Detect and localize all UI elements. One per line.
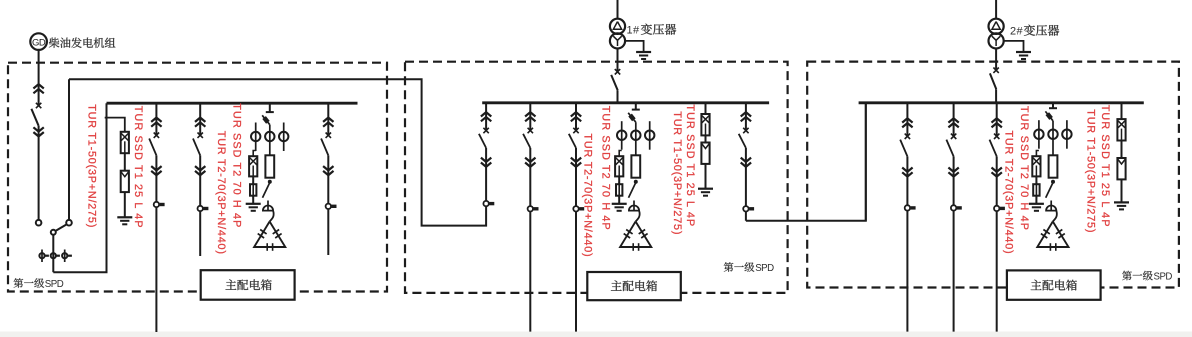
- transformer T2 delta winding: [989, 19, 1004, 34]
- SPD module left surge arrester F1 (varistor): [121, 171, 129, 192]
- breaker blade middle feeder 1: [479, 134, 486, 148]
- stub T-bar left SPD T2 assembly: [266, 111, 274, 113]
- label first level SPD left: [14, 278, 24, 288]
- junction dot middle SPD T2 assembly: [634, 180, 637, 183]
- drawout chevrons left feeder 2 bottom: [195, 171, 205, 175]
- disconnect blade right SPD T2 assembly: [1046, 183, 1053, 198]
- wire right feeder 2 upper: [953, 103, 955, 137]
- pigtail link middle SPD T2 assembly: [636, 211, 640, 222]
- CT sensor middle feeder 1: [483, 201, 488, 206]
- breaker x-contact right feeder 3: [994, 134, 999, 139]
- changeover pivot: [51, 230, 56, 235]
- breaker blade middle feeder 4: [739, 134, 746, 148]
- equipotential triangle right SPD T2 assembly: [1037, 222, 1068, 248]
- SPD phase ports right SPD T2 assembly: [1034, 130, 1043, 139]
- tick marks right SPD T2 assembly triangle bottom: [1049, 243, 1051, 251]
- equipotential triangle middle SPD T2 assembly: [620, 222, 651, 248]
- breaker x-contact generator: [36, 103, 41, 108]
- pigtail link left SPD T2 assembly: [270, 211, 274, 222]
- drawout chevrons left feeder 3 bottom: [323, 171, 333, 175]
- ground middle SPD T2 assembly: [612, 203, 627, 205]
- label first level SPD right: [1122, 271, 1132, 281]
- tick marks middle SPD T2 assembly triangle bottom: [632, 243, 634, 251]
- wire left feeder 3 lower: [327, 155, 329, 255]
- breaker x-contact T1 incoming: [615, 69, 620, 74]
- socket contact right SPD T2 assembly: [1046, 205, 1056, 210]
- drawout chevrons middle feeder 3 top: [571, 112, 581, 116]
- CT sensor middle feeder 2: [528, 206, 533, 211]
- left cabinet dashed enclosure: [8, 63, 387, 292]
- tick marks right SPD T2 assembly triangle left: [1043, 230, 1049, 234]
- drawout chevrons right feeder 1 top: [902, 118, 912, 122]
- linkage contact middle: [51, 253, 56, 258]
- wire right feeder 2 lower: [953, 156, 955, 331]
- svg-text:2#: 2#: [1010, 26, 1024, 38]
- transformer T1 delta winding: [610, 19, 625, 34]
- wire left feeder 1 upper: [155, 103, 157, 135]
- wire left feeder 1 lower: [155, 155, 157, 332]
- drawout chevrons middle feeder 4 bottom: [741, 163, 751, 167]
- junction dot left SPD T2 assembly: [268, 180, 271, 183]
- drawout chevrons right feeder 3 top: [992, 118, 1002, 122]
- svg-text:TUR SSD T2 70 H 4P: TUR SSD T2 70 H 4P: [231, 103, 243, 228]
- wire T2 to bus: [995, 89, 997, 103]
- tick marks middle SPD T2 assembly triangle right: [639, 230, 645, 234]
- wire changeover common: [52, 235, 54, 272]
- svg-text:GD: GD: [32, 37, 46, 48]
- jog wire left SPD T2 assembly left module: [253, 151, 256, 157]
- junction dot right SPD T2 assembly: [1051, 180, 1054, 183]
- wire T1 neutral to ground: [625, 41, 644, 52]
- svg-text:SPD: SPD: [755, 263, 774, 274]
- tick marks left SPD T2 assembly triangle bottom: [266, 243, 268, 251]
- socket contact left SPD T2 assembly: [263, 206, 273, 211]
- fuse-disconnect slash right SPD T2 assembly: [1045, 111, 1053, 120]
- breaker blade right feeder 2: [946, 140, 953, 157]
- drawout chevrons middle feeder 1 bottom: [481, 163, 491, 167]
- SPD module right surge arrester F1 (disconnector): [1117, 119, 1125, 140]
- tick marks left SPD T2 assembly triangle left: [260, 230, 266, 234]
- SPD module middle SPD T2 assembly left (disconnector): [615, 156, 623, 176]
- fuse right SPD T2 assembly: [1033, 184, 1039, 196]
- wire middle SPD T2 assembly fuse to ground: [618, 196, 620, 204]
- breaker blade T1 incoming: [611, 75, 618, 90]
- left busbar: [107, 102, 358, 105]
- ground right surge arrester F1: [1114, 201, 1129, 203]
- drawout chevrons right feeder 2 bottom: [948, 172, 958, 176]
- wire middle SPD T2 assembly stub: [635, 103, 637, 110]
- svg-text:1#: 1#: [627, 25, 641, 37]
- wire left feeder 2 upper: [199, 103, 201, 135]
- main distribution box label right: [1007, 270, 1101, 299]
- breaker blade left feeder 3: [321, 139, 328, 156]
- wire middle SPD T2 assembly left module to fuse: [618, 176, 620, 184]
- wire left SPD tap: [105, 118, 125, 132]
- SPD module left surge arrester F1 (disconnector): [121, 132, 129, 153]
- drawout chevrons generator bottom: [33, 132, 43, 136]
- wire middle feeder 1 upper: [485, 103, 487, 131]
- SPD module left SPD T2 assembly left (disconnector): [249, 156, 257, 176]
- right cabinet dashed enclosure: [807, 62, 1179, 288]
- tick marks right SPD T2 assembly triangle right: [1056, 230, 1062, 234]
- svg-text:TUR T2-70(3P+N/440): TUR T2-70(3P+N/440): [215, 131, 227, 255]
- breaker blade right feeder 1: [900, 140, 907, 157]
- breaker x-contact T2 incoming: [993, 68, 998, 73]
- phase leads right SPD T2 assembly: [1038, 120, 1040, 149]
- wire middle feeder 2 lower: [529, 148, 531, 332]
- drawout chevrons left feeder 1 top: [151, 118, 161, 122]
- svg-text:TUR T1-50(3P+N/275): TUR T1-50(3P+N/275): [86, 104, 98, 228]
- SPD module middle surge arrester F1 (varistor): [701, 143, 709, 164]
- SPD module middle SPD T2 assembly right (gap): [631, 155, 640, 177]
- wire left feeder 3 upper: [327, 103, 329, 135]
- wire tie to right cabinet: [746, 103, 866, 221]
- drawout chevrons left feeder 1 bottom: [151, 171, 161, 175]
- breaker x-contact middle feeder 1: [483, 128, 488, 133]
- changeover left contact: [36, 220, 42, 226]
- drawout chevrons generator top: [33, 84, 43, 88]
- SPD module middle surge arrester F1 (disconnector): [701, 114, 709, 135]
- CT sensor middle feeder 4: [743, 206, 748, 211]
- wire T2 secondary: [995, 48, 997, 70]
- middle busbar: [482, 101, 769, 104]
- wire right surge arrester F1 lead: [1121, 103, 1123, 119]
- drawout chevrons right feeder 2 top: [948, 118, 958, 122]
- breaker x-contact left feeder 3: [326, 133, 331, 138]
- ground T1 neutral: [636, 51, 651, 53]
- wire left SPD T2 assembly left module to fuse: [252, 176, 254, 184]
- wire middle feeder 3 upper: [575, 103, 577, 131]
- pigtail link right SPD T2 assembly: [1053, 211, 1057, 222]
- wire right surge arrester F1 to ground: [1121, 179, 1123, 202]
- SPD module left SPD T2 assembly right (gap): [265, 155, 274, 177]
- linkage contact right: [62, 253, 67, 258]
- wire tie to middle cabinet: [69, 79, 486, 225]
- generator GD symbol: [30, 33, 47, 50]
- wire T1 secondary: [617, 49, 619, 72]
- label first level SPD middle: [724, 262, 734, 272]
- wire generator to changeover: [38, 126, 40, 220]
- drawout chevrons left feeder 2 top: [195, 118, 205, 122]
- breaker blade middle feeder 3: [569, 134, 576, 148]
- label diesel generator set: [49, 38, 59, 48]
- SPD phase ports middle SPD T2 assembly: [617, 131, 626, 140]
- drawout chevrons middle feeder 4 top: [741, 112, 751, 116]
- linkage contact left: [39, 253, 44, 258]
- transformer T2 wye winding: [989, 33, 1004, 48]
- svg-text:TUR SSD T1 25 L 4P: TUR SSD T1 25 L 4P: [684, 104, 696, 227]
- wire left surge arrester F1 to ground: [124, 192, 126, 217]
- svg-text:TUR SSD T2 70 H 4P: TUR SSD T2 70 H 4P: [1018, 106, 1030, 231]
- CT sensor middle feeder 3: [573, 206, 578, 211]
- CT sensor left feeder 2: [198, 206, 203, 211]
- phase leads left SPD T2 assembly: [255, 123, 257, 152]
- wire left surge arrester F1 mid: [124, 153, 126, 171]
- breaker x-contact right feeder 2: [951, 134, 956, 139]
- disconnect blade middle SPD T2 assembly: [629, 183, 636, 198]
- wire middle surge arrester F1 mid: [705, 135, 707, 142]
- SPD module right SPD T2 assembly right (gap): [1049, 155, 1058, 177]
- jog wire right SPD T2 assembly left module: [1036, 151, 1039, 157]
- wire right SPD T2 assembly fuse to ground: [1035, 196, 1037, 204]
- breaker x-contact left feeder 2: [198, 133, 203, 138]
- drawout chevrons middle feeder 3 bottom: [571, 163, 581, 167]
- svg-text:TUR SSD T1 25 L 4P: TUR SSD T1 25 L 4P: [132, 106, 144, 229]
- wire right feeder 3 lower: [996, 156, 998, 331]
- fuse-disconnect slash left SPD T2 assembly: [262, 115, 270, 124]
- breaker x-contact middle feeder 2: [528, 128, 533, 133]
- drawout chevrons right feeder 1 bottom: [902, 172, 912, 176]
- tick marks middle SPD T2 assembly triangle left: [626, 230, 632, 234]
- ground right SPD T2 assembly: [1029, 203, 1044, 205]
- wire T2 neutral to ground: [1004, 41, 1024, 52]
- breaker x-contact right feeder 1: [905, 134, 910, 139]
- wire middle feeder 4 upper: [745, 103, 747, 131]
- wire right cabinet entry: [865, 103, 867, 221]
- wire right surge arrester F1 mid: [1121, 141, 1123, 159]
- phase leads middle SPD T2 assembly: [621, 121, 623, 150]
- wire middle feeder 1 lower: [485, 148, 487, 206]
- wire generator drop: [38, 50, 40, 105]
- wire middle surge arrester F1 lead: [705, 103, 707, 114]
- drawout chevrons middle feeder 2 bottom: [525, 163, 535, 167]
- CT sensor right feeder 2: [951, 205, 956, 210]
- fuse left SPD T2 assembly: [250, 184, 256, 196]
- svg-text:SPD: SPD: [1154, 272, 1173, 283]
- equipotential triangle left SPD T2 assembly: [254, 222, 285, 248]
- wire left SPD T2 assembly fuse to ground: [252, 196, 254, 204]
- drawout chevrons middle feeder 1 top: [481, 112, 491, 116]
- wire left feeder 2 lower: [199, 155, 201, 256]
- svg-text:TUR SSD T1 25 L 4P: TUR SSD T1 25 L 4P: [1099, 105, 1111, 228]
- SPD phase ports left SPD T2 assembly: [251, 132, 260, 141]
- wire right SPD T2 assembly left module to fuse: [1035, 176, 1037, 184]
- ground middle surge arrester F1: [698, 188, 713, 190]
- CT sensor left feeder 1: [154, 202, 159, 207]
- CT sensor right feeder 1: [905, 205, 910, 210]
- svg-text:TUR T1-50(3P+N/275): TUR T1-50(3P+N/275): [1084, 109, 1096, 233]
- wire right feeder 1 lower: [906, 156, 908, 331]
- wire T1 to bus: [617, 90, 619, 103]
- socket contact middle SPD T2 assembly: [629, 206, 639, 211]
- wire left SPD T2 assembly stub: [269, 103, 271, 112]
- svg-text:TUR T1-50(3P+N/275): TUR T1-50(3P+N/275): [671, 111, 683, 235]
- fuse-disconnect slash middle SPD T2 assembly: [628, 113, 636, 122]
- jog wire middle SPD T2 assembly left module: [619, 151, 622, 157]
- CT sensor left feeder 3: [326, 204, 331, 209]
- ground left surge arrester F1: [117, 216, 132, 218]
- wire middle feeder 4 lower: [745, 148, 747, 221]
- changeover blade: [56, 224, 67, 231]
- tick marks left SPD T2 assembly triangle right: [273, 230, 279, 234]
- stub T-bar middle SPD T2 assembly: [632, 109, 640, 111]
- changeover right contact: [66, 220, 72, 226]
- breaker blade middle feeder 2: [523, 134, 530, 148]
- fuse middle SPD T2 assembly: [616, 184, 622, 196]
- middle cabinet dashed enclosure: [405, 62, 788, 293]
- drawout chevrons right feeder 3 bottom: [992, 172, 1002, 176]
- breaker blade generator: [31, 109, 38, 126]
- transformer T1 wye winding: [610, 33, 625, 48]
- breaker x-contact middle feeder 4: [743, 128, 748, 133]
- breaker blade left feeder 2: [193, 139, 200, 156]
- wire middle feeder 2 upper: [529, 103, 531, 131]
- svg-text:TUR T2-70(3P+N/440): TUR T2-70(3P+N/440): [1002, 131, 1014, 255]
- svg-text:TUR SSD T2 70 H 4P: TUR SSD T2 70 H 4P: [599, 106, 611, 231]
- wire right feeder 1 upper: [906, 103, 908, 137]
- wire changeover output to bus: [53, 103, 106, 272]
- wire left surge arrester F1 lead: [124, 131, 126, 133]
- incoming line T1: [617, 0, 619, 20]
- svg-text:TUR T2-70(3P+N/440): TUR T2-70(3P+N/440): [582, 134, 594, 258]
- bottom gray strip: [0, 332, 1192, 337]
- wire middle surge arrester F1 to ground: [705, 164, 707, 189]
- SPD module right SPD T2 assembly left (disconnector): [1032, 156, 1040, 176]
- CT sensor right feeder 3: [994, 206, 999, 211]
- stub T-bar right SPD T2 assembly: [1049, 107, 1057, 109]
- wire utility riser: [68, 79, 70, 220]
- drawout chevrons middle feeder 2 top: [525, 112, 535, 116]
- main distribution box label middle: [587, 272, 681, 300]
- ground T2 neutral: [1016, 51, 1031, 53]
- breaker x-contact middle feeder 3: [573, 128, 578, 133]
- incoming line T2: [995, 0, 997, 20]
- SPD module right surge arrester F1 (varistor): [1117, 158, 1125, 179]
- ground left SPD T2 assembly: [246, 203, 261, 205]
- wire right SPD T2 assembly stub: [1052, 103, 1054, 108]
- right busbar: [859, 101, 1144, 104]
- wire middle feeder 3 lower: [575, 148, 577, 332]
- wire right feeder 3 upper: [996, 103, 998, 137]
- svg-text:SPD: SPD: [45, 279, 64, 290]
- breaker blade right feeder 3: [990, 140, 997, 157]
- breaker x-contact left feeder 1: [154, 133, 159, 138]
- breaker blade left feeder 1: [149, 139, 156, 156]
- breaker blade T2 incoming: [990, 73, 996, 89]
- drawout chevrons left feeder 3 top: [323, 118, 333, 122]
- disconnect blade left SPD T2 assembly: [263, 183, 270, 198]
- main distribution box label left: [201, 270, 295, 300]
